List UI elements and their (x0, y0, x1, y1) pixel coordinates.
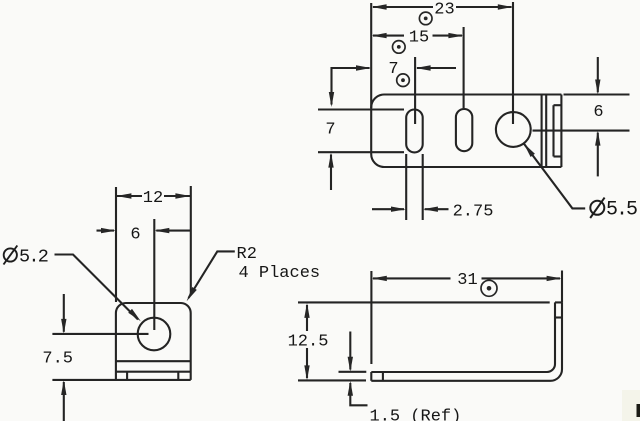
dim 12 arrows (116, 193, 131, 198)
top view flange cap bottom (554, 155, 562, 157)
dim 23 line (373, 6, 433, 8)
dim 31 line (373, 277, 451, 279)
dim 6 right ext top (564, 93, 630, 95)
dim 2.75 arrows (391, 207, 406, 212)
front view part outline (116, 303, 191, 380)
svg-text:31: 31 (457, 271, 477, 290)
dim 12.5 line tails (306, 305, 308, 331)
svg-text:7: 7 (325, 121, 335, 140)
side view leg top (371, 371, 547, 373)
dim 2.75 ext lines (405, 154, 407, 220)
dim 6 front arrows (101, 228, 116, 233)
svg-text:6: 6 (130, 225, 140, 244)
dim 7.5 ext (hole center horizontal) (52, 333, 148, 335)
svg-text:15: 15 (409, 29, 429, 48)
front view bottom edge + 7.5 ext (52, 379, 190, 381)
top view part outline (371, 95, 561, 168)
leader R2 (189, 251, 235, 298)
dim 6 front right tail (156, 230, 191, 232)
dim 12 ext right (190, 186, 192, 294)
leader 5.2 (55, 255, 139, 320)
top view flange cap top (554, 104, 562, 106)
side view leg bottom (371, 380, 550, 382)
svg-text:R2: R2 (237, 245, 257, 264)
label diameter 5.2 (4, 246, 48, 268)
svg-text:1.5 (Ref): 1.5 (Ref) (370, 407, 462, 421)
hole 5.5 (496, 112, 531, 147)
top view bend line 2 (545, 95, 547, 168)
dim 6 right arrows (595, 80, 600, 95)
dim 12 line (117, 195, 142, 197)
dim 31 arrows (372, 276, 387, 281)
dim 6 front left tail (97, 230, 115, 232)
dim 7.5 arrows (61, 319, 66, 334)
dim 12.5 ext bottom (298, 379, 366, 381)
side view top edge (298, 301, 550, 303)
dim 7v bottom arrow (328, 153, 333, 168)
hole 5.2 (138, 318, 171, 351)
dim 2.75 line (372, 208, 404, 210)
dim 7v bottom tail (330, 155, 332, 191)
leader 5.5 arrow (524, 143, 535, 157)
side view flange crossbar (555, 316, 562, 318)
dim 7h jog line (332, 68, 370, 105)
dim 12.5 arrows (304, 303, 309, 318)
dim 6 right ext bottom (hole center) (533, 130, 630, 132)
svg-text:12: 12 (143, 189, 163, 208)
svg-text:4 Places: 4 Places (239, 264, 321, 283)
side view leg left cap (370, 372, 372, 381)
svg-text:23: 23 (434, 1, 454, 20)
dim 7.5 arrow tails (63, 294, 65, 332)
label diameter 5.5 (590, 198, 637, 222)
dim 7v ext bottom (318, 151, 404, 153)
symbol at 15 (393, 41, 406, 54)
top view bend line 1 (541, 95, 543, 168)
ext line left edge (dims 23/15) (370, 3, 372, 108)
dim 1.5 arrow tails + elbow (349, 332, 351, 370)
leader 5.2 arrow (128, 309, 141, 321)
svg-text:6: 6 (593, 103, 603, 122)
dim 15 line (373, 35, 404, 37)
svg-text:5.2: 5.2 (19, 246, 48, 267)
dim 7h arrows (356, 65, 371, 70)
dim 1.5 arrows (348, 357, 353, 372)
side view leg divider (382, 372, 384, 381)
arrowheads (61, 4, 600, 395)
slot 2 (456, 109, 472, 151)
symbol at 23 (419, 12, 432, 25)
dim 7v ext top (318, 108, 404, 110)
slot 1 (406, 110, 423, 153)
svg-text:12.5: 12.5 (288, 333, 329, 352)
front view leg corner marks (126, 372, 128, 380)
side view flange (547, 302, 562, 380)
svg-text:5.5: 5.5 (606, 199, 637, 222)
dim 15 arrows (372, 33, 387, 38)
dim 31 ext right (561, 271, 563, 303)
front view bend line 1 (116, 360, 191, 362)
dim 6 front ext (hole center vertical) (153, 219, 155, 330)
symbol at 7 (397, 74, 410, 87)
svg-text:7.5: 7.5 (42, 349, 73, 368)
leader R2 arrow (187, 287, 197, 301)
leader 5.5 (524, 143, 586, 208)
dim 31 ext left (370, 271, 372, 364)
dim 7h ext (slot1 center) (414, 57, 416, 124)
dim 23 arrows (372, 4, 387, 9)
dim 6 right arrows tails (597, 57, 599, 92)
origin symbols (393, 12, 498, 296)
symbol at 31 (481, 280, 497, 296)
dim 7h right tail (417, 67, 456, 69)
dim 1.5 ext top (339, 371, 367, 373)
front view bend line 2 (116, 371, 191, 373)
dim 15 ext right (463, 27, 465, 108)
dim 12 ext left (115, 187, 117, 302)
svg-text:7: 7 (388, 60, 398, 79)
dim 23 ext right (512, 2, 514, 124)
top view flange inner edge (552, 105, 554, 156)
corner artifact mark (622, 390, 640, 421)
svg-text:2.75: 2.75 (453, 202, 494, 221)
